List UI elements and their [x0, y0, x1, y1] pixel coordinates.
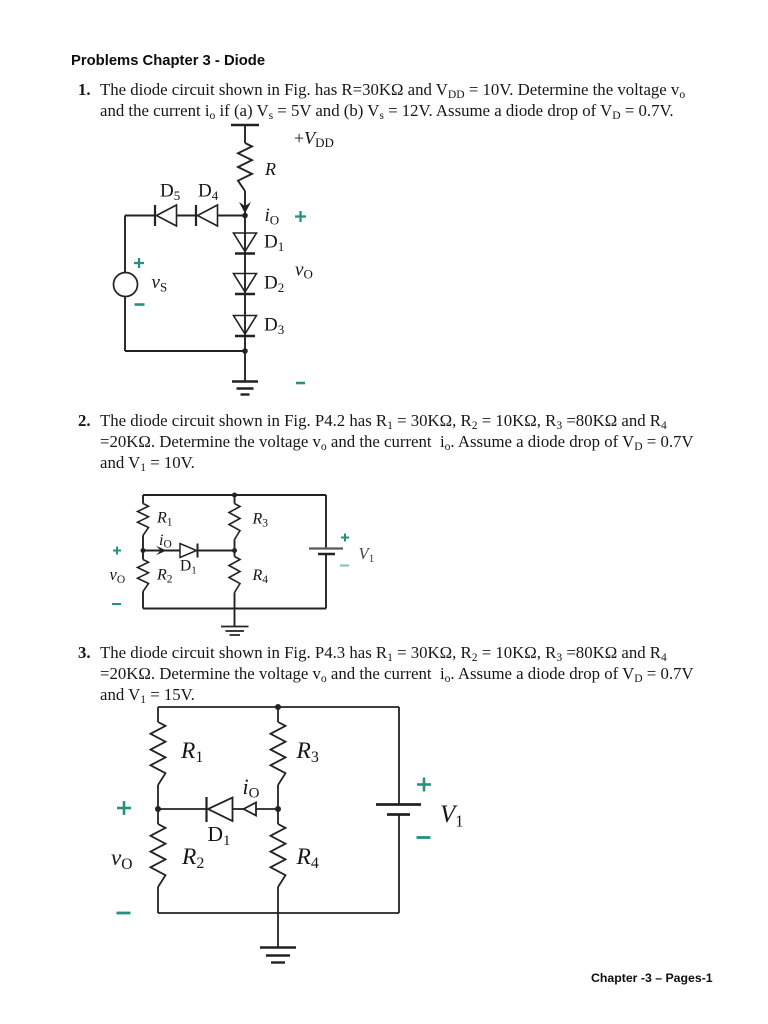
wire R3 to middle node	[234, 540, 236, 557]
wire R4 to bottom	[234, 593, 236, 609]
open current arrow io c3	[244, 803, 257, 816]
wire VDD to resistor	[244, 125, 246, 143]
wire R1 to node	[142, 536, 144, 560]
bottom wire	[125, 350, 245, 352]
right rail c3	[398, 707, 400, 804]
diode D5	[155, 205, 177, 226]
svg-text:R2: R2	[181, 844, 204, 872]
svg-text:iO: iO	[159, 532, 172, 551]
wire R2-bottom c3	[157, 887, 159, 913]
wire D5 to left rail	[125, 215, 155, 217]
VDD supply bar	[231, 124, 259, 127]
resistor R2 c3	[151, 824, 166, 887]
wire D4 to D5	[177, 215, 198, 217]
wire source to bottom	[124, 297, 126, 352]
left rail top stem	[142, 495, 144, 504]
svg-text:+VDD: +VDD	[294, 128, 334, 150]
battery V1 c2	[309, 547, 343, 549]
resistor R3 c3	[271, 722, 286, 785]
label minus c2 left	[112, 603, 121, 605]
svg-text:vS: vS	[152, 272, 168, 295]
label plus c3 left	[117, 801, 131, 815]
bottom wire c3	[158, 912, 399, 914]
node left c2	[141, 548, 146, 553]
svg-text:V1: V1	[440, 801, 464, 831]
svg-text:D1: D1	[208, 822, 231, 849]
label minus battery c2	[340, 565, 349, 567]
wire arrow to middle node c3	[256, 808, 278, 810]
node middle c3	[275, 806, 281, 812]
svg-text:iO: iO	[265, 205, 280, 228]
title	[71, 53, 265, 69]
middle rail stem c3	[277, 707, 279, 722]
node top middle c2	[232, 493, 237, 498]
footer	[591, 971, 713, 985]
vertical diode chain wire	[244, 216, 246, 352]
svg-text:D5: D5	[160, 181, 180, 204]
problem 2 text	[78, 410, 91, 431]
label minus battery c3	[417, 836, 431, 839]
wire resistor to node with current arrow	[244, 191, 246, 213]
node B (bottom)	[242, 348, 248, 354]
problem 1 text	[78, 79, 91, 100]
diode D1	[234, 233, 257, 254]
svg-text:D1: D1	[180, 558, 197, 577]
left rail down to source	[124, 216, 126, 273]
diode wire c3	[158, 808, 206, 810]
diode D1 c3	[207, 797, 233, 822]
svg-text:vO: vO	[110, 565, 126, 586]
wire R3-node c3	[277, 785, 279, 824]
label plus battery c3	[417, 778, 431, 792]
diode D4	[196, 205, 218, 226]
bottom wire c2	[143, 608, 326, 610]
diode wire right c2	[198, 550, 235, 552]
ground c1	[232, 382, 258, 395]
svg-text:R4: R4	[296, 844, 319, 872]
svg-text:D1: D1	[264, 232, 284, 255]
svg-text:R: R	[264, 159, 276, 179]
wire node to D4	[218, 215, 246, 217]
svg-text:R2: R2	[156, 567, 173, 586]
label minus c3 left	[117, 912, 131, 915]
resistor R4	[229, 557, 240, 593]
arrowhead io	[239, 202, 251, 214]
node middle c2	[232, 548, 237, 553]
resistor R1 c3	[151, 722, 166, 785]
wire R1-node c3	[157, 785, 159, 824]
resistor R4 c3	[271, 824, 286, 887]
label minus vs c1	[135, 303, 145, 306]
resistor R	[238, 143, 252, 191]
ground c2	[221, 627, 249, 636]
svg-text:R4: R4	[252, 567, 269, 586]
label plus vs c1	[134, 258, 144, 268]
resistor R3	[229, 504, 240, 540]
source vs circle	[114, 273, 138, 297]
svg-text:vO: vO	[111, 845, 132, 873]
label minus c1 bottom	[296, 382, 305, 385]
diode D1 c2	[180, 544, 198, 558]
node A (top)	[242, 213, 248, 219]
resistor R1	[138, 504, 149, 536]
svg-text:R1: R1	[156, 510, 173, 529]
svg-text:D4: D4	[198, 181, 219, 204]
wire diode to arrow c3	[233, 808, 244, 810]
current arrow io c2	[156, 546, 167, 556]
node left c3	[155, 806, 161, 812]
svg-text:R3: R3	[296, 738, 319, 766]
problem 3 text	[78, 642, 91, 663]
svg-text:D2: D2	[264, 273, 284, 296]
label plus c1 right	[295, 211, 306, 222]
svg-text:R1: R1	[180, 738, 203, 766]
battery V1 c3	[376, 803, 421, 806]
wire R4-bottom c3	[277, 887, 279, 913]
ground c3	[260, 948, 296, 963]
ground stem c1	[244, 351, 246, 381]
battery right rail c2	[325, 495, 327, 548]
svg-text:vO: vO	[295, 260, 313, 282]
ground stem c2	[234, 609, 236, 627]
node top c3	[275, 704, 281, 710]
diode wire left c2	[143, 550, 180, 552]
svg-text:iO: iO	[243, 774, 260, 802]
svg-text:R3: R3	[252, 511, 269, 530]
resistor R2	[138, 560, 149, 592]
diode D3	[234, 316, 257, 337]
wire R2 to bottom	[142, 592, 144, 609]
diode D2	[234, 274, 257, 295]
svg-text:D3: D3	[264, 315, 284, 338]
label plus battery c2	[341, 534, 349, 542]
R3 stem	[234, 495, 236, 504]
top wire	[143, 494, 326, 496]
svg-text:V1: V1	[359, 544, 375, 565]
label plus c2 left	[113, 547, 121, 555]
left rail stem c3	[157, 707, 159, 722]
top wire c3	[158, 706, 399, 708]
ground stem c3	[277, 913, 279, 947]
